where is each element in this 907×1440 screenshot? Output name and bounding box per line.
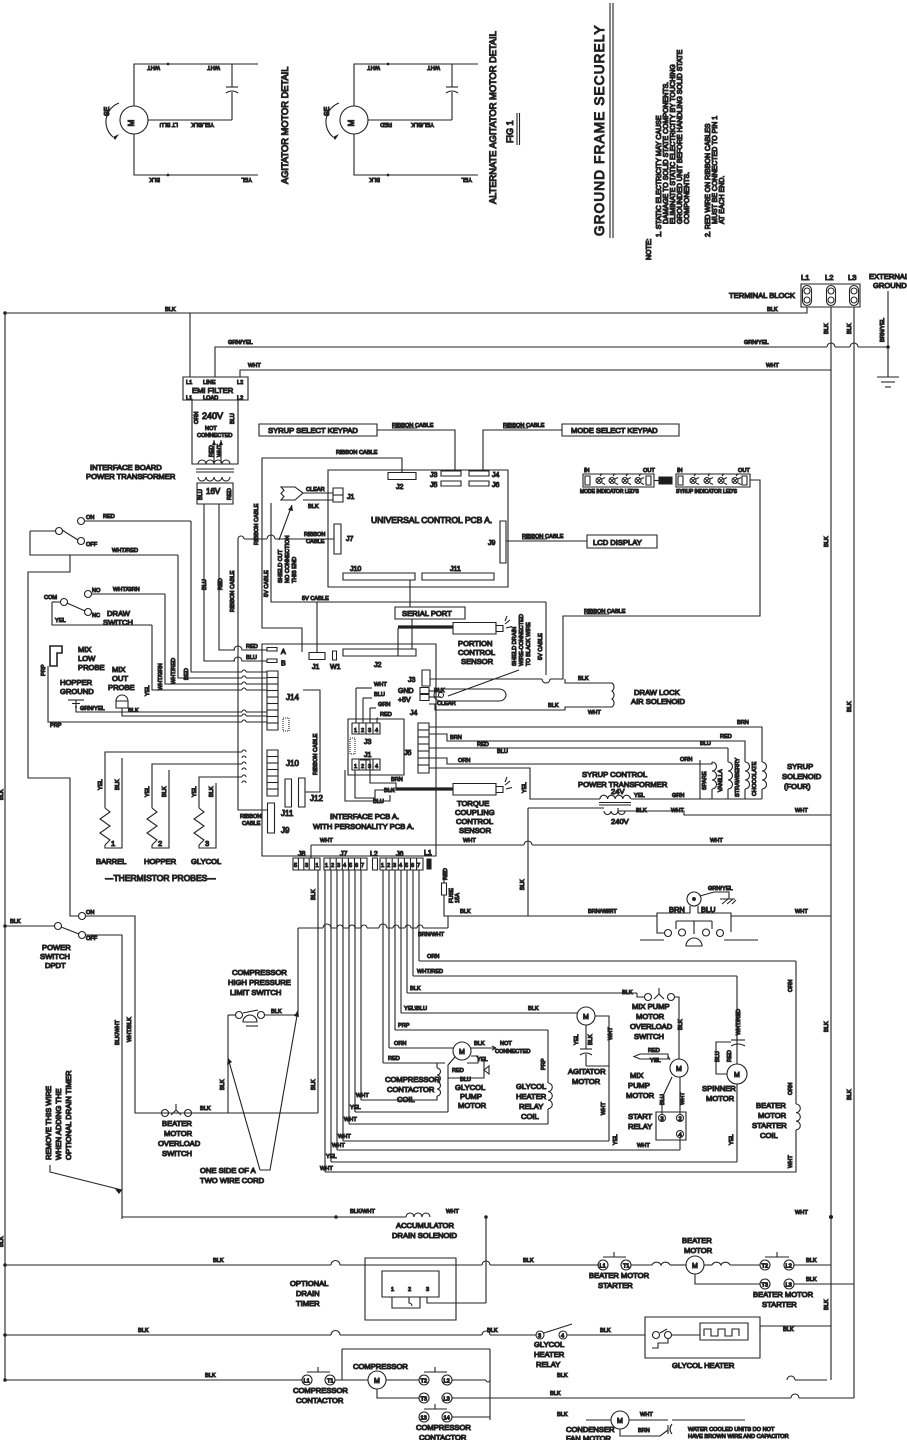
svg-text:J9: J9 (488, 540, 496, 547)
svg-text:DAMAGE TO SOLID STATE COMPONEN: DAMAGE TO SOLID STATE COMPONENTS. (663, 82, 670, 224)
svg-text:GLYCOL: GLYCOL (534, 1340, 564, 1349)
svg-text:---THERMISTOR PROBES---: ---THERMISTOR PROBES--- (105, 873, 216, 883)
svg-text:BLK/WHT: BLK/WHT (115, 1020, 121, 1045)
condenser fan motor row (452, 1411, 789, 1440)
row L3 to right (452, 1391, 854, 1398)
svg-text:CONTACTOR: CONTACTOR (296, 1396, 344, 1405)
svg-text:YEL: YEL (350, 1105, 361, 1111)
svg-text:3: 3 (538, 1334, 541, 1340)
svg-text:COMPONENTS.: COMPONENTS. (684, 172, 691, 224)
svg-text:BLK: BLK (783, 1327, 794, 1333)
wires WHT BLU GRN RED into J3p (356, 682, 392, 723)
power switch DPDT lower (4, 910, 98, 970)
spare coil (712, 762, 717, 789)
svg-text:BLK: BLK (806, 1258, 817, 1264)
svg-text:DRAW: DRAW (107, 609, 131, 618)
svg-text:7: 7 (361, 863, 364, 869)
connector J12 (299, 778, 306, 807)
svg-text:CABLE: CABLE (242, 821, 261, 827)
svg-text:BLK: BLK (474, 1041, 485, 1047)
svg-text:3: 3 (393, 863, 396, 869)
svg-text:L2: L2 (444, 1379, 450, 1385)
svg-text:2: 2 (331, 863, 334, 869)
svg-text:AGITATOR MOTOR DETAIL: AGITATOR MOTOR DETAIL (280, 67, 290, 184)
svg-text:WHT: WHT (637, 1143, 650, 1149)
draw switch (44, 587, 165, 627)
svg-text:MODE SELECT KEYPAD: MODE SELECT KEYPAD (571, 426, 658, 435)
wire J10u to serial port (409, 580, 411, 607)
svg-text:BLK: BLK (487, 1328, 498, 1334)
ribbon cable keypad to J4 (483, 430, 562, 470)
svg-text:J6: J6 (396, 851, 404, 858)
svg-text:14: 14 (444, 1416, 450, 1422)
svg-text:BLK: BLK (678, 1019, 684, 1030)
syrup control power transformer (528, 760, 831, 826)
svg-text:SWITCH: SWITCH (162, 1149, 192, 1158)
compressor (342, 1349, 490, 1420)
svg-text:WHT: WHT (795, 1210, 808, 1216)
svg-text:RED: RED (227, 488, 233, 500)
returns (711, 789, 713, 799)
svg-text:1: 1 (316, 863, 319, 869)
ribbon from J2u (262, 458, 402, 652)
svg-text:BLK: BLK (550, 1391, 561, 1397)
connector J6u (469, 481, 489, 486)
svg-text:1: 1 (325, 863, 328, 869)
svg-text:YEL: YEL (145, 786, 151, 797)
svg-text:COIL: COIL (521, 1112, 539, 1121)
terminal A (267, 648, 277, 652)
svg-text:WHT: WHT (367, 64, 380, 70)
svg-text:NC: NC (92, 613, 100, 619)
wire WHT (240, 370, 831, 377)
svg-text:1: 1 (111, 839, 115, 848)
svg-text:SHIELD CUT: SHIELD CUT (278, 549, 284, 583)
svg-text:1: 1 (354, 728, 357, 734)
svg-text:T2: T2 (762, 1264, 769, 1270)
svg-text:COMPRESSOR: COMPRESSOR (416, 1423, 471, 1432)
svg-text:RED: RED (246, 644, 258, 650)
svg-text:3: 3 (368, 728, 371, 734)
universal control PCB A (328, 470, 508, 587)
svg-text:1. STATIC ELECTRICITY MAY CAUS: 1. STATIC ELECTRICITY MAY CAUSE (656, 115, 663, 237)
svg-text:ORN: ORN (394, 1041, 406, 1047)
svg-text:RED: RED (648, 1048, 660, 1054)
accumulator drain solenoid (122, 1209, 833, 1303)
terminal block (729, 273, 860, 307)
connector J5i (404, 723, 429, 773)
svg-text:WHT: WHT (338, 1134, 351, 1140)
svg-text:MODE INDICATOR LED'S: MODE INDICATOR LED'S (580, 489, 639, 495)
svg-text:SERIAL PORT: SERIAL PORT (402, 609, 452, 618)
svg-text:16V: 16V (206, 487, 221, 496)
svg-text:COMPRESSOR: COMPRESSOR (353, 1362, 408, 1371)
svg-text:BLK: BLK (806, 1277, 817, 1283)
svg-text:CONTROL: CONTROL (458, 648, 495, 657)
svg-text:IN: IN (584, 468, 590, 474)
svg-text:GND: GND (398, 688, 414, 695)
svg-text:1: 1 (391, 1287, 394, 1293)
motor M1 (120, 106, 148, 134)
glycol heater (645, 1317, 831, 1370)
svg-text:WHT: WHT (446, 1209, 459, 1215)
svg-text:GROUNDED UNIT BEFORE HANDLING: GROUNDED UNIT BEFORE HANDLING SOLID STAT… (677, 49, 684, 224)
svg-text:6: 6 (355, 863, 358, 869)
svg-text:GRN/YEL: GRN/YEL (708, 886, 733, 892)
svg-text:BLK: BLK (0, 1236, 5, 1247)
svg-text:SPINNER: SPINNER (702, 1084, 736, 1093)
svg-text:5V CABLE: 5V CABLE (538, 633, 544, 660)
row L2 to right (452, 1373, 827, 1382)
svg-text:BLK: BLK (0, 789, 5, 800)
svg-text:J1: J1 (364, 752, 372, 759)
svg-text:MOTOR: MOTOR (636, 1012, 665, 1021)
svg-text:OUT: OUT (643, 468, 655, 474)
svg-text:15A: 15A (455, 893, 461, 903)
svg-text:WHT: WHT (588, 710, 601, 716)
svg-text:BLK: BLK (523, 1258, 534, 1264)
svg-text:ELIMINATE STATIC ELECTRICITY B: ELIMINATE STATIC ELECTRICITY BY TOUCHING (670, 64, 677, 224)
WHT long line mid (343, 1140, 609, 1142)
svg-text:WHT/GRN: WHT/GRN (113, 587, 140, 593)
connector J1i (309, 653, 325, 660)
svg-text:BLK/WHT: BLK/WHT (350, 1209, 375, 1215)
svg-text:SYRUP CONTROL: SYRUP CONTROL (582, 770, 647, 779)
fuse 15A (442, 868, 529, 916)
svg-text:RIBBON: RIBBON (304, 532, 325, 538)
wire syrup LED out loop (430, 480, 760, 683)
svg-text:4: 4 (375, 764, 378, 770)
svg-text:BLK: BLK (622, 990, 633, 996)
svg-text:L2: L2 (237, 380, 243, 386)
motor M2 (340, 106, 368, 134)
wire WHT/GRN to J14 (165, 594, 267, 684)
svg-text:J7: J7 (340, 851, 348, 858)
svg-text:RIBBON CABLE: RIBBON CABLE (313, 733, 319, 775)
svg-text:PUMP: PUMP (460, 1092, 482, 1101)
connector J1u (333, 488, 343, 502)
svg-text:J10: J10 (286, 759, 299, 768)
mode indicator LEDs (580, 468, 655, 495)
svg-text:J11: J11 (450, 566, 461, 573)
svg-text:WHT: WHT (788, 1155, 794, 1168)
svg-text:BLU: BLU (246, 655, 257, 661)
svg-text:+5V: +5V (398, 697, 411, 704)
svg-text:J14: J14 (286, 693, 299, 702)
svg-text:T2: T2 (421, 1379, 428, 1385)
wire WHT/RED vertical to J14 (178, 555, 267, 678)
svg-text:J4: J4 (492, 472, 500, 479)
svg-text:ORN: ORN (427, 954, 439, 960)
svg-text:L3: L3 (848, 273, 856, 282)
wire RED vertical to J14 (191, 521, 267, 672)
svg-text:M: M (347, 119, 356, 126)
svg-text:STARTER: STARTER (598, 1281, 633, 1290)
svg-text:TWO WIRE CORD: TWO WIRE CORD (200, 1176, 265, 1185)
svg-text:PUMP: PUMP (628, 1081, 650, 1090)
svg-text:2: 2 (361, 764, 364, 770)
connector J9u (500, 521, 506, 563)
svg-text:LIMIT SWITCH: LIMIT SWITCH (230, 988, 281, 997)
svg-text:CHOCOLATE: CHOCOLATE (752, 761, 758, 796)
svg-text:SPARE: SPARE (702, 771, 708, 790)
svg-text:OUT: OUT (112, 674, 128, 683)
wire top (134, 64, 258, 106)
svg-text:NO CONNECTION: NO CONNECTION (285, 535, 291, 583)
svg-text:RED: RED (218, 578, 224, 590)
svg-text:RED: RED (380, 121, 392, 127)
svg-text:L3: L3 (444, 1397, 450, 1403)
svg-text:YEL: YEL (522, 782, 528, 793)
svg-text:240V: 240V (611, 817, 630, 826)
svg-text:BRN/WHT: BRN/WHT (418, 932, 445, 938)
svg-text:ORN: ORN (458, 758, 470, 764)
svg-text:ACCUMULATOR: ACCUMULATOR (396, 1221, 454, 1230)
svg-text:BEATER: BEATER (682, 1236, 712, 1245)
svg-text:YEL: YEL (634, 793, 645, 799)
svg-text:BLK: BLK (128, 708, 139, 714)
svg-text:WHT: WHT (608, 1027, 614, 1040)
shielded cable oval (434, 689, 506, 701)
svg-text:WHT: WHT (344, 1117, 357, 1123)
spinner motor (702, 1034, 747, 1103)
svg-text:BLK: BLK (149, 176, 160, 182)
svg-text:BLU: BLU (374, 692, 385, 698)
svg-text:WHT/RED: WHT/RED (171, 658, 177, 684)
svg-text:3: 3 (426, 1287, 429, 1293)
svg-text:MIX PUMP: MIX PUMP (632, 1002, 670, 1011)
svg-text:WITH PERSONALITY PCB A.: WITH PERSONALITY PCB A. (313, 822, 414, 831)
svg-text:OUT: OUT (738, 468, 750, 474)
svg-text:BLK: BLK (138, 1328, 149, 1334)
svg-text:RED: RED (477, 742, 489, 748)
svg-text:2: 2 (158, 839, 162, 848)
svg-text:BLK: BLK (528, 1006, 539, 1012)
mode select keypad (562, 424, 679, 436)
svg-text:4: 4 (343, 863, 346, 869)
LED jumper connector (659, 477, 672, 484)
svg-text:GRN/YEL: GRN/YEL (80, 706, 105, 712)
svg-text:J4: J4 (410, 710, 418, 717)
svg-text:MOTOR: MOTOR (684, 1246, 713, 1255)
svg-text:CLEAR: CLEAR (306, 487, 325, 493)
svg-text:GRN/YEL: GRN/YEL (744, 340, 769, 346)
connector J5u (441, 481, 461, 486)
svg-text:WHT: WHT (332, 1143, 345, 1149)
svg-text:BEATER: BEATER (756, 1101, 786, 1110)
svg-text:BLK: BLK (847, 323, 853, 334)
svg-text:5: 5 (294, 863, 297, 869)
wire RED from 16V (219, 504, 235, 650)
wire bottom BLK row 1380 (4, 1373, 302, 1381)
connector J14 (267, 671, 299, 731)
svg-text:VANILLA: VANILLA (718, 769, 724, 792)
connector J10 (267, 750, 299, 796)
svg-text:L1: L1 (186, 396, 192, 402)
svg-text:RED: RED (103, 514, 115, 520)
svg-text:J2: J2 (396, 484, 404, 491)
svg-text:RIBBON CABLE: RIBBON CABLE (230, 570, 236, 612)
svg-text:L2: L2 (825, 273, 833, 282)
syrup indicator LEDs (676, 468, 750, 495)
svg-text:HAVE BROWN WIRE AND CAPACITOR: HAVE BROWN WIRE AND CAPACITOR (688, 1434, 789, 1440)
jumper W1 (333, 651, 337, 660)
connector J3i (422, 670, 430, 686)
remove this wire note (44, 1070, 122, 1194)
svg-text:BLU: BLU (700, 741, 711, 747)
connector row J8 (293, 845, 320, 870)
ribbon cable keypad to J3 (377, 430, 455, 470)
svg-text:ON: ON (86, 910, 94, 916)
svg-text:5V CABLE: 5V CABLE (264, 570, 270, 597)
svg-text:GRN/YEL: GRN/YEL (228, 340, 253, 346)
svg-text:BRN: BRN (391, 777, 403, 783)
svg-text:TO BLACK WIRE: TO BLACK WIRE (526, 622, 532, 666)
svg-text:WHT: WHT (710, 838, 723, 844)
svg-text:2. RED WIRE ON RIBBON CABLES: 2. RED WIRE ON RIBBON CABLES (705, 123, 712, 237)
svg-text:TORQUE: TORQUE (457, 799, 489, 808)
rotation arrow SE (106, 103, 119, 137)
wire BLK L3 right vertical (853, 307, 855, 1398)
svg-text:BLK: BLK (767, 307, 778, 313)
compressor high pressure limit switch (220, 968, 298, 1113)
svg-text:3: 3 (337, 863, 340, 869)
svg-text:THIS END: THIS END (292, 557, 298, 583)
svg-text:BRN: BRN (737, 720, 749, 726)
svg-text:WHT: WHT (604, 909, 617, 915)
syrup solenoids (four) (505, 720, 822, 799)
svg-text:BLK: BLK (308, 504, 319, 510)
wire top (354, 64, 478, 106)
wire GRN/YEL (215, 343, 888, 377)
svg-text:SYRUP SELECT KEYPAD: SYRUP SELECT KEYPAD (268, 426, 358, 435)
svg-text:ONE SIDE OF A: ONE SIDE OF A (200, 1166, 257, 1175)
svg-text:BLU: BLU (497, 749, 508, 755)
svg-text:J6: J6 (492, 482, 500, 489)
svg-text:M: M (459, 1049, 465, 1056)
svg-text:YEL/BLK: YEL/BLK (411, 121, 434, 127)
svg-text:J3: J3 (364, 739, 372, 746)
svg-text:BEATER MOTOR: BEATER MOTOR (589, 1271, 650, 1280)
wire BLK L1 top (5, 307, 807, 313)
svg-text:BLK: BLK (165, 307, 176, 313)
svg-text:SENSOR: SENSOR (459, 826, 492, 835)
svg-text:NOT: NOT (205, 426, 217, 432)
svg-text:YEL: YEL (98, 779, 104, 790)
serial port (395, 607, 465, 619)
svg-text:ORN: ORN (788, 1083, 794, 1095)
beater motor overload switch (158, 1104, 211, 1158)
svg-text:YEL: YEL (477, 1057, 488, 1063)
connector row J6 (380, 851, 423, 870)
svg-text:CONNECTED: CONNECTED (197, 433, 232, 439)
nested wires right turns (383, 954, 796, 1063)
svg-text:WHT: WHT (374, 682, 387, 688)
svg-text:HEATER: HEATER (516, 1092, 547, 1101)
svg-text:PROBE: PROBE (108, 683, 135, 692)
svg-text:DPDT: DPDT (45, 961, 66, 970)
connector J9i (268, 803, 275, 833)
svg-text:J1: J1 (312, 664, 320, 671)
svg-text:WHT: WHT (207, 64, 220, 70)
svg-text:4: 4 (399, 863, 402, 869)
thermistor probe wires (98, 750, 246, 848)
thermistor R2 hopper (147, 808, 157, 845)
svg-text:BLK: BLK (311, 889, 317, 900)
svg-text:WHT: WHT (766, 363, 779, 369)
glycol heater relay contacts (534, 1324, 645, 1369)
wire BLK right of fuse (527, 808, 529, 916)
svg-text:NOTE:: NOTE: (646, 239, 653, 260)
svg-text:BLK: BLK (588, 1034, 594, 1045)
svg-text:MOTOR: MOTOR (164, 1129, 193, 1138)
svg-text:WHT: WHT (795, 808, 808, 814)
svg-text:YEL: YEL (461, 176, 472, 182)
svg-text:POWER: POWER (42, 943, 71, 952)
svg-text:WHT/RED: WHT/RED (417, 969, 443, 975)
wire bottom (134, 134, 258, 175)
svg-text:WHT/RED: WHT/RED (112, 548, 138, 554)
svg-text:T1: T1 (623, 1264, 630, 1270)
svg-text:T3: T3 (421, 1397, 428, 1403)
wire BLK row 1265 (4, 1258, 599, 1266)
svg-text:YEL: YEL (55, 618, 66, 624)
svg-text:YEL\BLU: YEL\BLU (404, 1006, 427, 1012)
svg-text:T1: T1 (327, 1379, 334, 1385)
hopper ground (60, 678, 267, 712)
svg-text:J10: J10 (350, 566, 361, 573)
svg-text:GLYCOL: GLYCOL (455, 1083, 485, 1092)
one side of a two wire cord (200, 1010, 299, 1185)
svg-text:BLK: BLK (548, 703, 559, 709)
svg-text:J2: J2 (374, 662, 382, 669)
svg-text:SWITCH: SWITCH (103, 618, 133, 627)
svg-text:ON: ON (86, 515, 94, 521)
svg-text:BLK: BLK (847, 1089, 853, 1100)
svg-text:CABLE: CABLE (306, 539, 325, 545)
svg-text:WHEN ADDING THE: WHEN ADDING THE (54, 1088, 63, 1160)
thermistor R1 barrel (100, 808, 110, 845)
svg-text:(FOUR): (FOUR) (784, 782, 811, 791)
svg-text:3: 3 (205, 839, 209, 848)
svg-text:3: 3 (305, 863, 308, 869)
svg-text:SYRUP: SYRUP (787, 762, 813, 771)
svg-text:MIX: MIX (630, 1071, 644, 1080)
svg-text:WHT: WHT (248, 363, 261, 369)
svg-text:RED: RED (727, 1050, 733, 1062)
svg-text:WHT: WHT (601, 1102, 607, 1115)
wires 24V side (631, 760, 700, 799)
right outer loop box (325, 961, 796, 1172)
connector J4u (469, 471, 489, 476)
svg-text:BLK: BLK (200, 1106, 211, 1112)
svg-text:2: 2 (679, 1117, 682, 1123)
torque coupling control sensor (381, 777, 512, 835)
svg-text:AGITATOR: AGITATOR (568, 1067, 606, 1076)
svg-text:GROUND: GROUND (60, 687, 94, 696)
svg-text:GLYCOL: GLYCOL (191, 857, 221, 866)
external ground (869, 272, 907, 387)
svg-text:BLK: BLK (578, 676, 589, 682)
svg-text:GROUND FRAME SECURELY: GROUND FRAME SECURELY (592, 24, 607, 236)
svg-text:YEL: YEL (613, 1134, 619, 1145)
terminal B (267, 659, 277, 663)
connector J7u (334, 524, 341, 554)
svg-text:SWITCH: SWITCH (634, 1032, 664, 1041)
svg-text:CONTACTOR: CONTACTOR (387, 1085, 435, 1094)
capacitor C2 (451, 64, 453, 87)
svg-text:24V: 24V (611, 787, 625, 796)
